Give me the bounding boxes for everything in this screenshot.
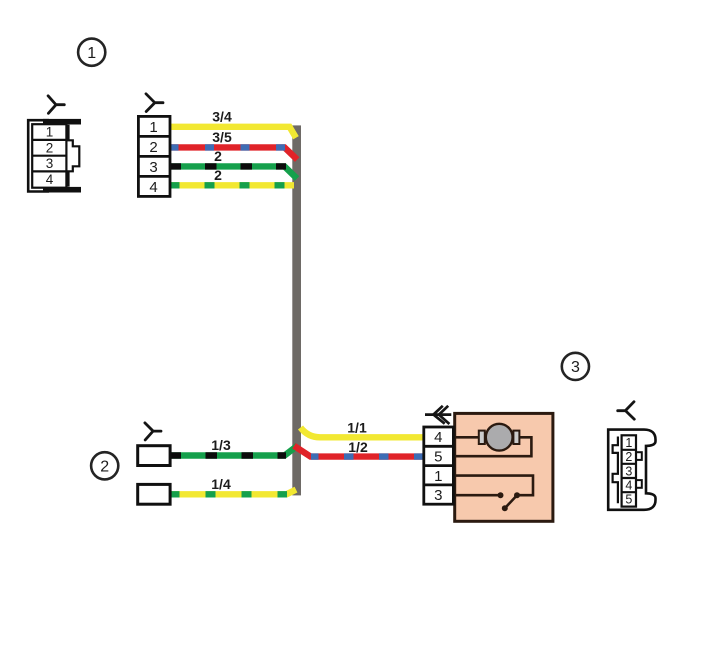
single-pin box 1 <box>138 446 170 466</box>
wire 3/5 (red/blue, pin 2 to trunk) <box>170 147 297 159</box>
svg-text:1: 1 <box>149 119 157 136</box>
svg-text:1/1: 1/1 <box>347 420 367 436</box>
svg-text:3: 3 <box>434 487 442 504</box>
svg-text:1/2: 1/2 <box>348 439 368 455</box>
internal lead pin 3 to switch <box>453 494 500 497</box>
wire 1/2 (red/blue, trunk to pin 5) <box>294 446 424 457</box>
wire 2 (green/black, pin 3 to trunk) <box>170 166 297 178</box>
svg-text:1: 1 <box>46 125 54 140</box>
motor unit body (salmon box) <box>455 413 553 521</box>
shield symbol above connector X2 <box>618 402 635 420</box>
shield symbol above connector X1 <box>48 96 64 114</box>
svg-text:2: 2 <box>625 450 632 464</box>
wire 1/1 (yellow, trunk to pin 4) <box>301 428 425 438</box>
internal lead pin 4 to motor <box>453 436 481 439</box>
connector X2 pin numbers <box>625 436 632 507</box>
svg-text:5: 5 <box>625 493 632 507</box>
svg-text:1/4: 1/4 <box>211 476 231 492</box>
svg-text:3: 3 <box>571 359 580 376</box>
svg-text:3: 3 <box>625 464 632 478</box>
svg-text:3: 3 <box>149 159 157 176</box>
svg-text:4: 4 <box>434 429 442 446</box>
switch S1 (open contact) <box>498 492 521 511</box>
wire 2 (yellow/green, pin 4 to trunk) <box>170 182 294 188</box>
svg-text:4: 4 <box>46 172 54 187</box>
svg-text:1: 1 <box>87 45 96 62</box>
svg-text:2: 2 <box>149 139 157 156</box>
connector X1 housing (side view) <box>28 119 81 193</box>
callout circle 3 <box>562 353 589 380</box>
single-pin box 2 <box>138 484 170 504</box>
connector X1 pin numbers <box>46 125 54 187</box>
svg-text:4: 4 <box>625 479 632 493</box>
internal lead pin 1 to switch <box>453 476 533 496</box>
shield symbol above single-pin box 1 <box>145 423 161 440</box>
svg-text:3: 3 <box>46 156 54 171</box>
harness trunk (grey) <box>292 125 301 495</box>
svg-text:4: 4 <box>149 179 157 196</box>
pin block of motor unit (pins 4,5,1,3) <box>424 427 454 504</box>
svg-text:3/4: 3/4 <box>212 108 232 124</box>
svg-text:1/3: 1/3 <box>211 437 231 453</box>
wire 3/4 (yellow, pin 1 to trunk) <box>170 127 296 138</box>
svg-text:2: 2 <box>100 459 109 476</box>
internal lead motor to pin 5 <box>453 437 531 456</box>
shield symbol above pin block 1 <box>146 94 163 112</box>
svg-text:2: 2 <box>46 141 54 156</box>
svg-text:2: 2 <box>214 167 222 183</box>
callout circle 2 <box>91 452 118 479</box>
wire 1/4 (yellow/green, box to trunk) <box>170 490 296 495</box>
svg-text:2: 2 <box>214 148 222 164</box>
pin block 1 (pins 1-4) <box>138 116 170 196</box>
svg-text:5: 5 <box>434 449 442 466</box>
double-chevron symbol above motor pin block <box>425 406 451 424</box>
svg-text:3/5: 3/5 <box>212 129 232 145</box>
callout circle 1 <box>78 39 105 66</box>
wire 1/3 (green/black, box to trunk) <box>170 446 298 456</box>
connector X2 housing (5-way, side view) <box>608 430 655 510</box>
svg-text:1: 1 <box>434 468 442 485</box>
motor M1 <box>479 424 520 451</box>
svg-text:1: 1 <box>625 436 632 450</box>
